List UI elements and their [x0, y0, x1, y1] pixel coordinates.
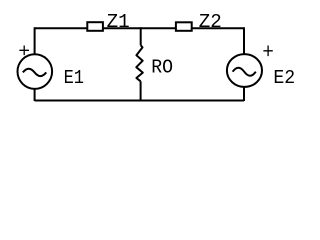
impedance Z1 box [87, 22, 103, 31]
svg-text:E2: E2 [273, 67, 295, 89]
source E1 circle [18, 54, 53, 89]
svg-text:E1: E1 [64, 67, 84, 89]
source E1 plus polarity mark [19, 46, 29, 56]
wire middle vertical bottom (R0 to bottom node) [140, 81, 142, 100]
wire top rail from E1 to E2 through Z1, node, Z2 [35, 27, 244, 29]
source E2 sine wave [233, 68, 256, 76]
wire right vertical bottom (E2 bottom to bottom rail) [243, 86, 245, 101]
svg-text:Z2: Z2 [199, 11, 222, 33]
source E1 sine wave [23, 69, 46, 76]
svg-text:RO: RO [151, 56, 173, 78]
source E2 circle [227, 54, 262, 87]
svg-text:Z1: Z1 [107, 11, 130, 33]
wire left vertical bottom (E1 bottom to bottom rail) [34, 89, 36, 101]
wire right vertical top (top rail to E2 top) [243, 27, 245, 54]
wire middle vertical top (top node to R0) [140, 27, 142, 45]
impedance Z2 box [176, 22, 192, 31]
wire left vertical top (top rail to E1 top) [34, 27, 36, 55]
resistor R0 zigzag [136, 45, 143, 81]
wire bottom rail from E1 to E2 through bottom node [35, 100, 244, 102]
source E2 plus polarity mark [263, 46, 272, 57]
